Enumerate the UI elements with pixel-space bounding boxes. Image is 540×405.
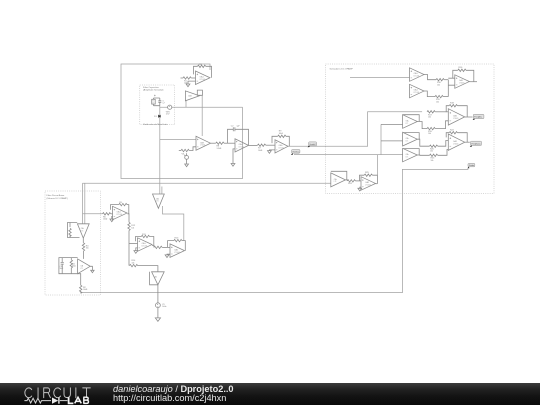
svg-text:10k: 10k (132, 262, 135, 264)
svg-text:OA: OA (406, 153, 409, 156)
svg-text:1kHz: 1kHz (162, 306, 166, 308)
svg-text:56nF: 56nF (60, 268, 64, 270)
svg-text:LT1: LT1 (80, 268, 83, 270)
svg-text:10k: 10k (428, 117, 431, 119)
svg-text:(Amplitude Senoidal): (Amplitude Senoidal) (143, 89, 164, 92)
svg-text:Filtro Passa-Baixa: Filtro Passa-Baixa (47, 194, 66, 197)
svg-text:OA5: OA5 (279, 144, 283, 147)
svg-text:R22: R22 (450, 130, 455, 132)
svg-text:10kΩ: 10kΩ (279, 133, 284, 135)
svg-text:LT1001: LT1001 (200, 145, 205, 147)
svg-text:10k: 10k (431, 160, 434, 162)
svg-text:10kΩ: 10kΩ (83, 289, 88, 291)
svg-text:C2: C2 (231, 125, 235, 127)
svg-text:10k: 10k (430, 151, 433, 153)
svg-text:10kΩ: 10kΩ (103, 219, 108, 221)
svg-text:LT1: LT1 (334, 181, 337, 183)
svg-text:10k: 10k (428, 133, 431, 135)
svg-text:FreqBaixa: FreqBaixa (472, 144, 482, 146)
svg-text:R25: R25 (365, 172, 370, 174)
svg-text:Saida2: Saida2 (309, 144, 316, 146)
svg-text:OA: OA (334, 178, 337, 181)
svg-text:Retificador de MeiaOnda: Retificador de MeiaOnda (143, 123, 168, 126)
svg-text:R16: R16 (459, 67, 464, 69)
svg-text:5V: 5V (152, 102, 154, 104)
svg-text:OA: OA (406, 137, 409, 140)
svg-text:LT1001: LT1001 (279, 148, 284, 150)
svg-text:LT1: LT1 (406, 141, 409, 143)
svg-text:1µF: 1µF (237, 125, 241, 127)
svg-text:R18: R18 (450, 103, 455, 105)
svg-text:10k: 10k (436, 101, 439, 103)
svg-text:R24: R24 (348, 183, 353, 185)
svg-text:R21: R21 (72, 263, 75, 265)
svg-text:10k: 10k (86, 248, 89, 250)
svg-text:(Silencio DC OPAMP): (Silencio DC OPAMP) (47, 197, 69, 200)
svg-text:OA4: OA4 (239, 143, 243, 146)
svg-text:R13: R13 (175, 238, 180, 240)
svg-text:LT1: LT1 (406, 157, 409, 159)
svg-text:10kΩ: 10kΩ (258, 150, 263, 152)
svg-text:D1: D1 (154, 116, 158, 118)
svg-text:OA3: OA3 (200, 141, 204, 144)
svg-text:1µF: 1µF (162, 102, 165, 104)
svg-text:10k: 10k (131, 227, 134, 229)
svg-text:3.3kΩ: 3.3kΩ (217, 148, 222, 150)
svg-text:OA: OA (80, 265, 83, 268)
svg-text:C1: C1 (162, 101, 164, 103)
svg-text:OA2: OA2 (188, 95, 192, 98)
svg-text:Saida: Saida (469, 165, 475, 167)
svg-text:10k: 10k (437, 84, 440, 86)
svg-text:OA: OA (406, 120, 409, 123)
svg-text:OA: OA (154, 276, 157, 279)
svg-text:1mV: 1mV (166, 114, 170, 116)
svg-text:10kΩ: 10kΩ (72, 265, 77, 267)
svg-text:Filtro Capacitivo: Filtro Capacitivo (143, 86, 159, 89)
svg-text:C10: C10 (60, 266, 63, 268)
svg-text:Retifica: Retifica (293, 150, 301, 153)
svg-text:FreqAlta: FreqAlta (474, 116, 482, 119)
svg-text:Somadores DC OPAMP: Somadores DC OPAMP (330, 67, 354, 70)
svg-text:LT1: LT1 (406, 123, 409, 125)
svg-text:LT1001: LT1001 (239, 147, 244, 149)
